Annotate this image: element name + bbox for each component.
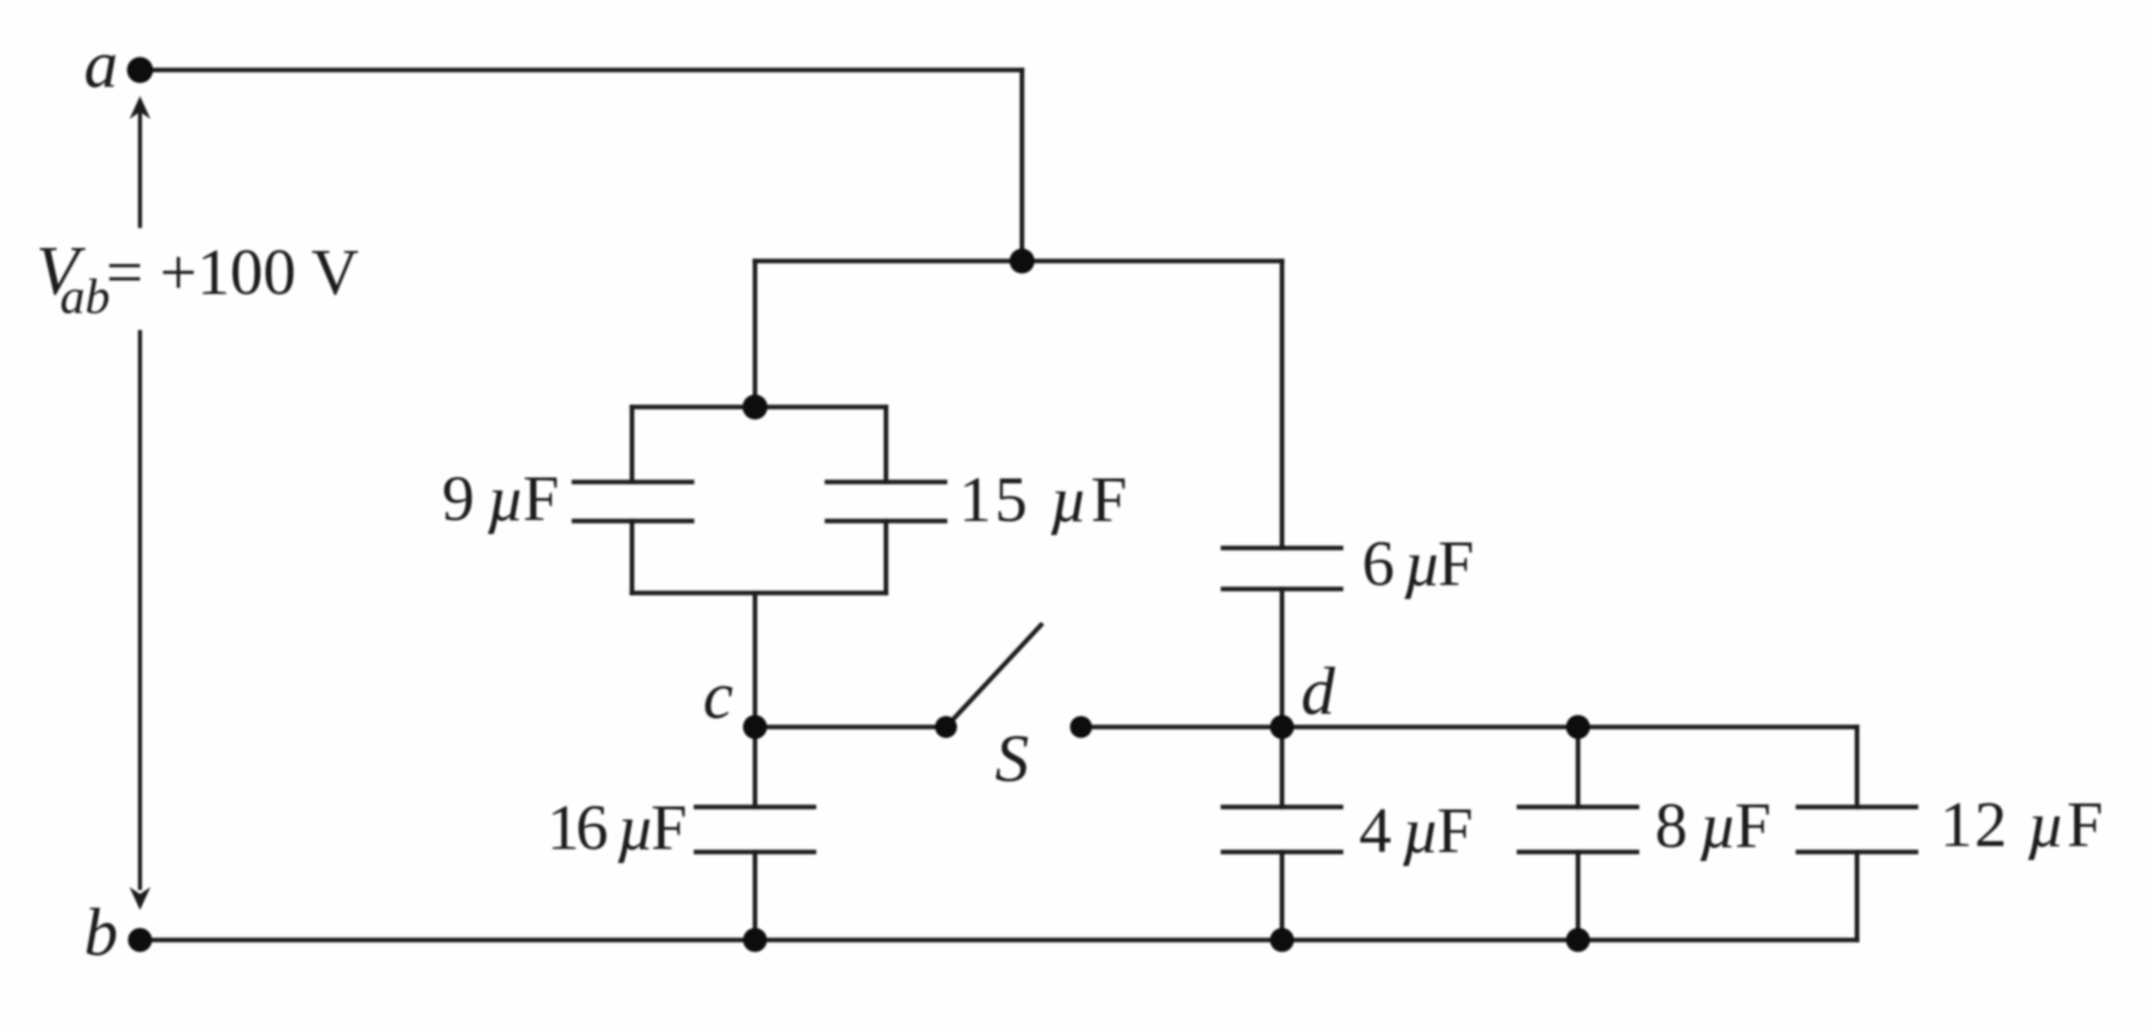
svg-text:ab: ab — [60, 268, 110, 324]
wire: 8uF branch upper vertical — [1576, 727, 1581, 807]
svg-text:a: a — [84, 26, 118, 102]
junction dot bottom under 8uF — [1566, 928, 1590, 952]
wire: box left lower segment — [630, 521, 635, 593]
wire: 6uF branch upper vertical — [1280, 261, 1285, 548]
svg-text:12 µF: 12 µF — [1940, 789, 2103, 861]
capacitor C 12uF plates — [1798, 805, 1916, 810]
wire: 8uF branch lower vertical — [1576, 852, 1581, 940]
wire: node c to switch pivot — [755, 725, 946, 730]
capacitor C 6uF plates — [1223, 546, 1341, 551]
wire: bottom rail from node b to right corner — [140, 938, 1857, 943]
switch open terminal dot — [1070, 716, 1092, 738]
switch S blade — [946, 625, 1041, 727]
wire: node d down to 4uF — [1280, 727, 1285, 807]
node d dot — [1270, 715, 1294, 739]
svg-text:d: d — [1301, 653, 1336, 729]
node a dot — [127, 57, 153, 83]
voltage arrow lower head — [130, 887, 151, 910]
wire: 12uF branch lower vertical — [1855, 852, 1860, 940]
junction dot box top — [743, 395, 768, 420]
wire: 16uF to bottom rail — [753, 852, 758, 940]
wire: 4uF to bottom rail — [1280, 852, 1285, 940]
svg-text:c: c — [703, 657, 733, 733]
switch pivot dot — [935, 716, 957, 738]
capacitor C 15uF plates — [827, 480, 945, 485]
wire: mid horizontal from left corner to 6uF branch corner — [755, 259, 1282, 264]
junction dot 8uF top — [1566, 715, 1590, 739]
capacitor C 16uF plates — [696, 805, 814, 810]
capacitor C 8uF plates — [1519, 805, 1637, 810]
svg-text:4 µF: 4 µF — [1359, 795, 1473, 867]
wire: box right lower segment — [884, 521, 889, 593]
wire: top horizontal a to corner — [140, 68, 1022, 73]
svg-text:6 µF: 6 µF — [1362, 528, 1474, 600]
junction dot bottom under c — [743, 928, 767, 952]
svg-text:= +100 V: = +100 V — [106, 236, 359, 309]
svg-text:S: S — [995, 720, 1029, 796]
svg-text:9 µF: 9 µF — [442, 463, 559, 535]
wire: switch right terminal to node d — [1081, 725, 1282, 730]
wire: box bottom edge — [632, 591, 886, 596]
wire: vertical from mid horizontal down to parallel box top — [753, 261, 758, 407]
wire: box right upper segment — [884, 407, 889, 482]
voltage arrow upper segment — [138, 110, 142, 890]
capacitor C 9uF plates — [574, 480, 692, 485]
wire: top-right horizontal from node d to right corner — [1282, 725, 1857, 730]
voltage arrow upper head — [130, 96, 151, 119]
wire: 12uF branch upper vertical — [1855, 727, 1860, 807]
svg-text:16 µF: 16 µF — [547, 792, 687, 864]
capacitor C 4uF plates — [1223, 805, 1341, 810]
svg-text:15 µF: 15 µF — [959, 464, 1127, 536]
wire: parallel box top edge — [632, 405, 886, 410]
wire: node c down to 16uF — [753, 727, 758, 807]
junction dot top — [1010, 249, 1035, 274]
wire: box bottom to node c — [753, 593, 758, 727]
wire: 6uF branch lower vertical to node d — [1280, 589, 1285, 727]
svg-text:8 µF: 8 µF — [1655, 790, 1771, 862]
svg-text:b: b — [84, 894, 118, 970]
wire: vertical from top corner down to junction — [1020, 70, 1025, 261]
junction dot bottom under d — [1270, 928, 1294, 952]
wire: box left upper segment — [630, 407, 635, 482]
node c dot — [743, 715, 767, 739]
node b dot — [128, 928, 152, 952]
